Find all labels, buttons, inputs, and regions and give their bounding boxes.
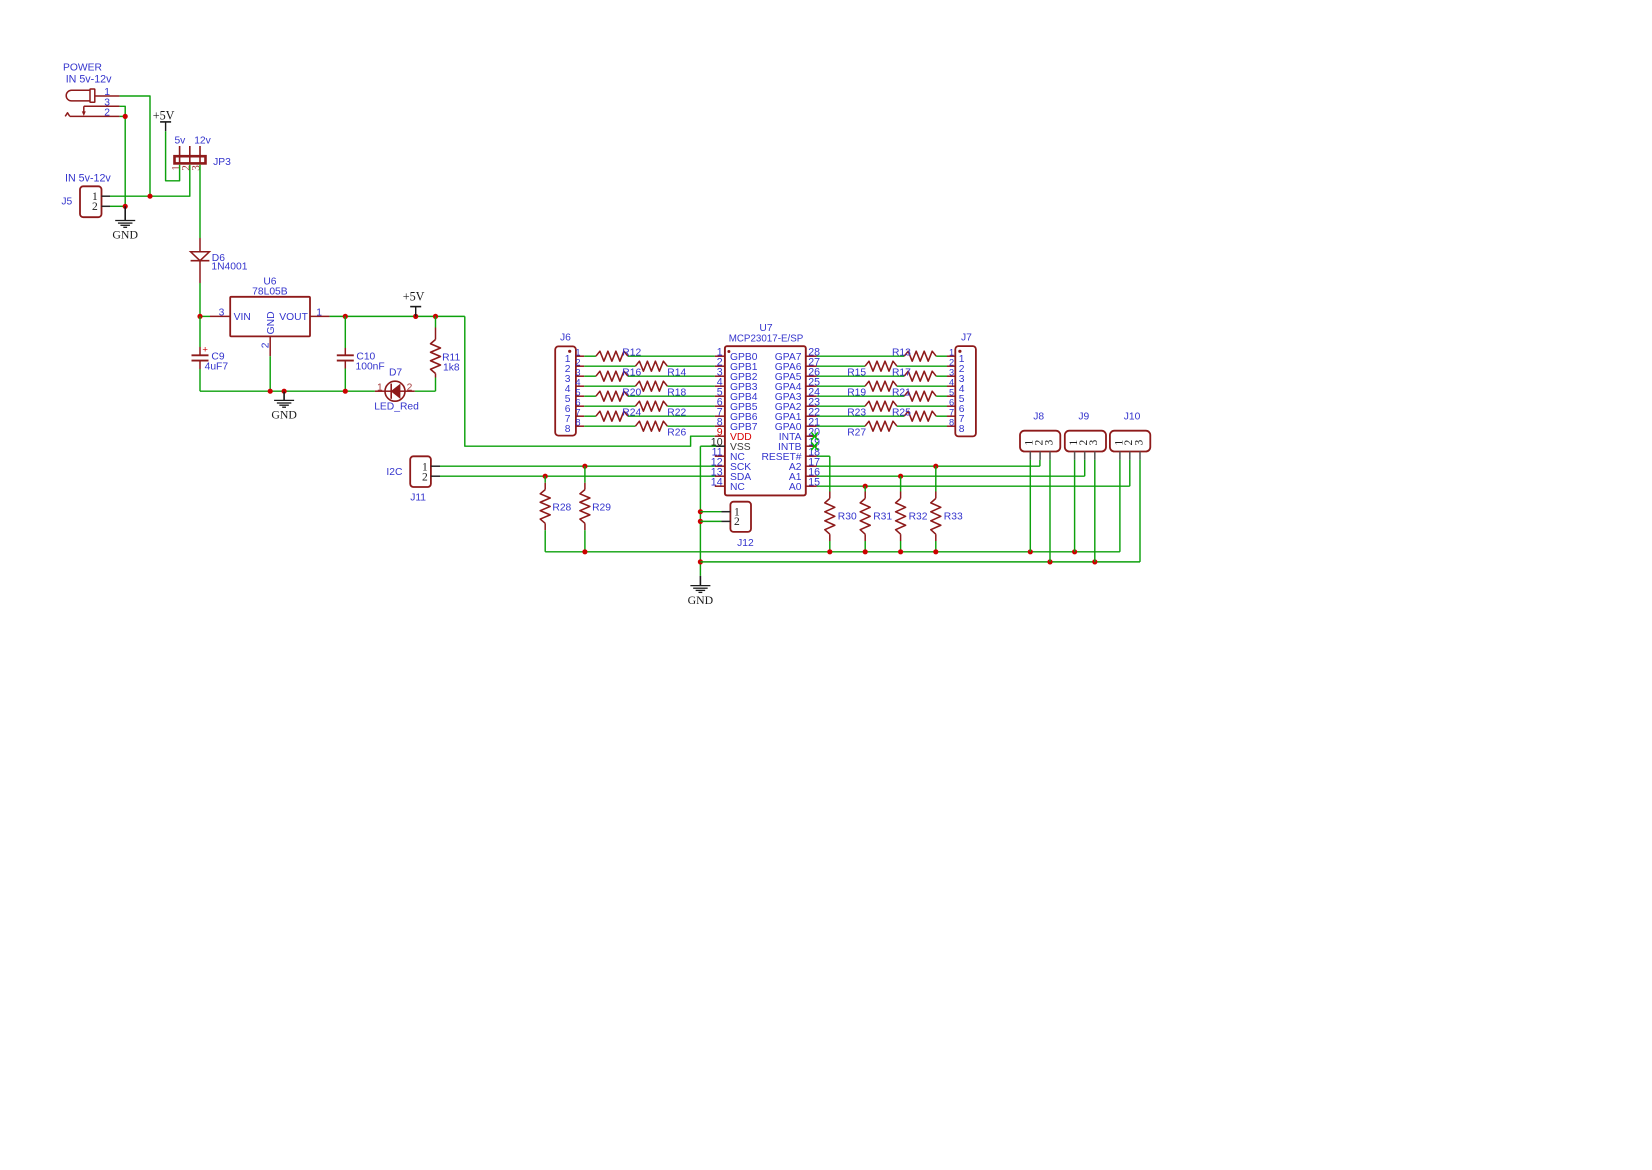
svg-text:JP3: JP3 xyxy=(213,157,231,168)
svg-text:+: + xyxy=(202,345,208,356)
svg-text:3: 3 xyxy=(1088,439,1100,445)
svg-text:R15: R15 xyxy=(847,367,866,378)
svg-text:4uF7: 4uF7 xyxy=(205,361,229,372)
svg-text:1: 1 xyxy=(949,347,954,357)
svg-text:GND: GND xyxy=(688,593,714,607)
svg-text:R32: R32 xyxy=(909,511,928,522)
svg-text:2: 2 xyxy=(422,472,428,484)
svg-text:R14: R14 xyxy=(667,367,686,378)
svg-text:IN 5v-12v: IN 5v-12v xyxy=(66,74,112,86)
svg-text:R16: R16 xyxy=(622,368,641,379)
svg-text:R22: R22 xyxy=(667,407,686,418)
svg-text:3: 3 xyxy=(949,367,954,377)
svg-text:2: 2 xyxy=(104,107,110,118)
svg-text:7: 7 xyxy=(949,407,954,417)
svg-text:R33: R33 xyxy=(944,511,963,522)
svg-text:J5: J5 xyxy=(61,196,72,207)
svg-text:6: 6 xyxy=(949,397,954,407)
svg-text:3: 3 xyxy=(575,367,580,377)
svg-text:2: 2 xyxy=(92,201,98,213)
svg-text:GND: GND xyxy=(271,408,297,422)
svg-text:NC: NC xyxy=(730,482,745,493)
svg-text:3: 3 xyxy=(1043,439,1055,445)
svg-text:5v: 5v xyxy=(174,136,186,147)
svg-text:R31: R31 xyxy=(873,511,892,522)
svg-text:J11: J11 xyxy=(410,492,426,503)
svg-text:R13: R13 xyxy=(892,348,911,359)
svg-text:R12: R12 xyxy=(622,348,641,359)
svg-text:MCP23017-E/SP: MCP23017-E/SP xyxy=(729,334,804,345)
svg-text:R21: R21 xyxy=(892,388,911,399)
svg-text:VIN: VIN xyxy=(234,312,251,323)
svg-text:IN 5v-12v: IN 5v-12v xyxy=(65,173,111,185)
svg-text:1k8: 1k8 xyxy=(443,362,460,373)
svg-text:5: 5 xyxy=(949,387,954,397)
svg-text:GND: GND xyxy=(112,228,138,242)
svg-text:R26: R26 xyxy=(667,427,686,438)
svg-text:R27: R27 xyxy=(847,427,866,438)
svg-text:1: 1 xyxy=(377,382,383,393)
svg-text:J12: J12 xyxy=(737,538,754,549)
svg-text:R29: R29 xyxy=(592,502,611,513)
svg-text:R30: R30 xyxy=(838,511,857,522)
svg-text:R25: R25 xyxy=(892,408,911,419)
svg-text:3: 3 xyxy=(191,165,203,171)
svg-text:8: 8 xyxy=(959,424,965,435)
svg-text:3: 3 xyxy=(1133,439,1145,445)
svg-text:2: 2 xyxy=(734,516,740,528)
svg-text:J6: J6 xyxy=(560,333,571,344)
svg-text:U7: U7 xyxy=(759,323,772,334)
svg-text:D7: D7 xyxy=(389,368,402,379)
svg-text:2: 2 xyxy=(949,357,954,367)
svg-text:6: 6 xyxy=(575,397,580,407)
svg-text:J9: J9 xyxy=(1078,412,1089,423)
svg-text:J7: J7 xyxy=(961,332,972,343)
svg-text:8: 8 xyxy=(949,417,954,427)
svg-text:12v: 12v xyxy=(194,136,211,147)
svg-text:LED_Red: LED_Red xyxy=(374,402,419,413)
svg-text:2: 2 xyxy=(575,357,580,367)
svg-text:7: 7 xyxy=(575,407,580,417)
svg-text:J10: J10 xyxy=(1124,412,1141,423)
svg-text:J8: J8 xyxy=(1033,412,1044,423)
svg-text:R20: R20 xyxy=(622,388,641,399)
svg-text:4: 4 xyxy=(575,377,580,387)
svg-text:4: 4 xyxy=(949,377,954,387)
svg-text:8: 8 xyxy=(575,417,580,427)
svg-text:5: 5 xyxy=(575,387,580,397)
svg-text:2: 2 xyxy=(407,382,413,393)
svg-text:14: 14 xyxy=(711,476,723,488)
svg-text:R23: R23 xyxy=(847,407,866,418)
svg-text:1: 1 xyxy=(104,87,110,98)
svg-text:8: 8 xyxy=(565,424,571,435)
svg-text:R24: R24 xyxy=(622,408,641,419)
svg-text:R18: R18 xyxy=(667,387,686,398)
svg-text:100nF: 100nF xyxy=(356,362,385,373)
svg-text:R17: R17 xyxy=(892,368,911,379)
svg-text:78L05B: 78L05B xyxy=(252,286,288,297)
svg-text:+5V: +5V xyxy=(403,290,425,304)
svg-text:1: 1 xyxy=(575,347,580,357)
svg-text:GND: GND xyxy=(266,311,277,334)
svg-text:+5V: +5V xyxy=(153,109,175,123)
svg-text:POWER: POWER xyxy=(63,62,102,73)
svg-text:1N4001: 1N4001 xyxy=(211,261,247,272)
svg-text:I2C: I2C xyxy=(386,467,403,478)
svg-text:A0: A0 xyxy=(789,482,802,493)
svg-text:VOUT: VOUT xyxy=(279,312,308,323)
svg-text:R28: R28 xyxy=(552,502,571,513)
svg-text:R19: R19 xyxy=(847,387,866,398)
